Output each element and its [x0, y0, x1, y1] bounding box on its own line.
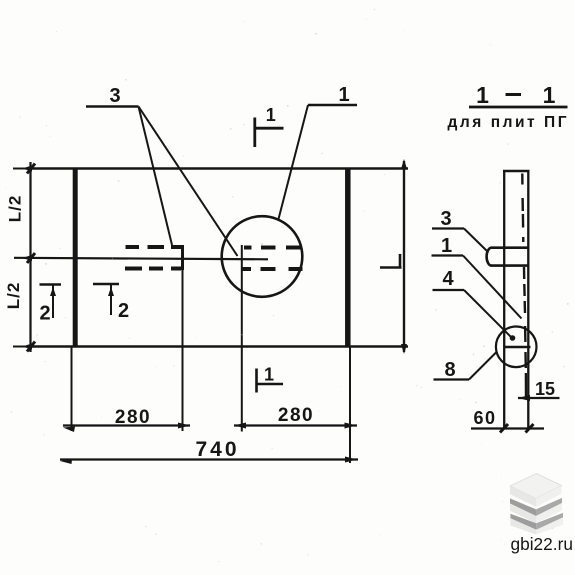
svg-text:3: 3	[109, 85, 120, 107]
svg-text:15: 15	[535, 379, 555, 399]
svg-text:1: 1	[476, 82, 489, 108]
svg-text:1: 1	[338, 84, 349, 106]
svg-text:2: 2	[39, 303, 50, 325]
svg-text:280: 280	[278, 405, 314, 426]
svg-text:3: 3	[440, 208, 451, 230]
svg-text:1: 1	[543, 82, 556, 108]
svg-text:8: 8	[444, 359, 455, 381]
svg-text:1: 1	[264, 365, 274, 385]
svg-text:4: 4	[442, 268, 454, 290]
svg-text:gbi22.ru: gbi22.ru	[511, 534, 573, 554]
svg-text:2: 2	[118, 300, 129, 322]
svg-text:L/2: L/2	[6, 195, 25, 223]
svg-text:для плит ПГ: для плит ПГ	[448, 114, 567, 131]
svg-text:1: 1	[441, 235, 452, 257]
svg-text:280: 280	[115, 407, 151, 428]
svg-text:1: 1	[266, 105, 276, 125]
svg-text:740: 740	[195, 438, 239, 461]
svg-text:L/2: L/2	[4, 282, 23, 310]
svg-text:60: 60	[473, 408, 496, 428]
